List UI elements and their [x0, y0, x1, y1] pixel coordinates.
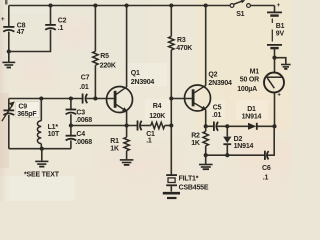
node Q2 collector top rail — [204, 3, 208, 7]
node Q2 emitter junction — [204, 124, 208, 128]
svg-text:R2: R2 — [191, 132, 200, 139]
ground under R2 — [199, 155, 213, 169]
diode D2 — [223, 126, 253, 155]
svg-text:CSB455E: CSB455E — [179, 185, 209, 192]
svg-text:365pF: 365pF — [17, 111, 37, 118]
svg-text:.1: .1 — [146, 137, 152, 144]
wire ground node to meter — [274, 58, 276, 73]
node D1 cathode junction — [272, 124, 276, 128]
node Q2 base junction — [169, 96, 173, 100]
svg-text:.1: .1 — [263, 175, 269, 182]
ground under tank — [35, 149, 48, 167]
wire to right ground — [275, 58, 286, 64]
meter M1 — [237, 68, 284, 98]
svg-text:B1: B1 — [276, 23, 285, 30]
svg-text:FILT1*: FILT1* — [179, 175, 199, 182]
node Q1 emitter junction — [125, 123, 129, 127]
capacitor C7 gap mask — [83, 97, 86, 101]
capacitor C8 — [1, 17, 26, 36]
wire R3 upper lead — [170, 6, 172, 37]
wire R3 node down to R4 node — [170, 99, 172, 126]
capacitor C5 — [206, 104, 228, 131]
wire C8 to ground node — [8, 32, 10, 52]
wire meter to D1 node — [274, 93, 276, 127]
node R2 bottom junction — [204, 153, 208, 157]
wire Q1 collector — [126, 6, 128, 88]
wire R2 leads — [205, 126, 207, 155]
resistor R4 — [149, 103, 171, 129]
svg-text:1K: 1K — [191, 140, 200, 147]
wire bottom right rail — [206, 154, 265, 156]
svg-text:2N3904: 2N3904 — [131, 79, 155, 86]
svg-text:2N3904: 2N3904 — [208, 80, 232, 87]
svg-text:C2: C2 — [58, 17, 67, 24]
svg-text:220K: 220K — [100, 62, 116, 69]
wire Q2 base line — [171, 98, 192, 100]
node C8/C2 junction — [7, 49, 11, 53]
battery B1 — [267, 3, 285, 48]
svg-text:*SEE TEXT: *SEE TEXT — [24, 172, 60, 179]
node battery negative junction — [272, 56, 276, 60]
capacitor C4 — [66, 126, 93, 149]
resistor R5 — [93, 51, 116, 69]
svg-text:.0068: .0068 — [75, 139, 92, 146]
svg-text:100µA: 100µA — [237, 86, 257, 93]
resistor R1 — [110, 137, 129, 152]
ground under C8 — [2, 52, 15, 68]
switch S1 — [230, 0, 250, 18]
svg-text:C9: C9 — [18, 104, 27, 111]
filter FILT1 — [166, 175, 209, 192]
wire L1 bottom lead — [40, 144, 42, 149]
svg-text:C4: C4 — [76, 131, 85, 138]
svg-text:C3: C3 — [76, 109, 85, 116]
transistor Q1 — [107, 70, 155, 112]
svg-text:C7: C7 — [81, 75, 90, 82]
ground right of battery — [281, 65, 291, 69]
capacitor C1 — [138, 121, 156, 145]
svg-text:1N914: 1N914 — [242, 113, 262, 120]
svg-text:D1: D1 — [247, 106, 256, 113]
svg-text:Q1: Q1 — [131, 70, 140, 77]
wire L1 top lead — [40, 99, 42, 121]
wire C9 lower lead — [8, 115, 10, 149]
node tank ground junction — [40, 147, 44, 151]
svg-text:R5: R5 — [100, 53, 109, 60]
node C2 top rail — [48, 3, 52, 7]
svg-text:L1*: L1* — [48, 124, 59, 131]
wire R1 lower lead — [126, 126, 128, 160]
node D2 bottom junction — [225, 153, 229, 157]
capacitor C7 — [79, 75, 89, 104]
svg-text:1K: 1K — [110, 145, 119, 152]
node Q1 collector top rail — [125, 3, 129, 7]
svg-text:10T: 10T — [48, 131, 60, 138]
label box for C9 — [16, 102, 40, 118]
node R5 top rail — [93, 3, 97, 7]
label see text — [24, 172, 60, 179]
wire rail to battery corner — [274, 6, 276, 12]
transistor Q2 — [185, 72, 233, 111]
capacitor C2 — [45, 17, 66, 32]
diode D1 — [242, 106, 275, 130]
wire tank top rail / base line — [9, 98, 114, 100]
wire C2 top lead — [50, 6, 52, 25]
svg-text:.0068: .0068 — [75, 117, 92, 124]
svg-text:1N914: 1N914 — [234, 143, 254, 150]
wire R5 lower lead — [94, 65, 96, 98]
node R5 base junction — [93, 96, 97, 100]
svg-text:C5: C5 — [213, 104, 222, 111]
svg-text:9V: 9V — [276, 31, 285, 38]
wire emitter node line — [71, 125, 137, 127]
wire top rail right of switch — [250, 5, 274, 7]
svg-text:120K: 120K — [149, 113, 165, 120]
svg-text:S1: S1 — [236, 11, 244, 18]
wire C8-C2 bottom link — [9, 30, 51, 52]
wire tank bottom rail — [9, 148, 71, 150]
node C3/C4 junction — [69, 123, 73, 127]
resistor R3 — [169, 37, 193, 53]
wire R3 lower lead — [170, 50, 172, 99]
capacitor C3 — [66, 99, 93, 126]
inductor L1 — [37, 121, 60, 144]
node R3 top rail — [169, 3, 173, 7]
ground under FILT1 — [163, 193, 180, 198]
svg-text:D2: D2 — [234, 136, 243, 143]
svg-text:470K: 470K — [176, 45, 192, 52]
node L1 top junction — [39, 96, 43, 100]
svg-text:Q2: Q2 — [208, 72, 217, 79]
wire top rail — [9, 5, 230, 7]
wire Q2 collector — [205, 6, 207, 86]
variable capacitor C9 — [2, 101, 38, 121]
capacitor C6 — [262, 126, 274, 181]
svg-text:R1: R1 — [110, 138, 119, 145]
wire down to FILT1 — [170, 126, 172, 175]
ground under R1 — [120, 160, 134, 165]
svg-text:R4: R4 — [153, 103, 162, 110]
svg-text:R3: R3 — [177, 37, 186, 44]
svg-text:.01: .01 — [212, 112, 221, 119]
resistor R2 — [191, 131, 208, 147]
node D2 top junction — [225, 124, 229, 128]
svg-text:47: 47 — [17, 29, 25, 36]
node C3 top junction — [69, 96, 73, 100]
wire Q1 emitter — [126, 111, 128, 125]
svg-text:M1: M1 — [250, 68, 260, 75]
svg-text:.01: .01 — [79, 84, 88, 91]
wire battery to ground node — [274, 48, 276, 58]
wire Q2 emitter — [205, 110, 207, 127]
svg-text:.1: .1 — [58, 25, 64, 32]
wire R5 upper lead — [94, 6, 96, 52]
svg-text:50 OR: 50 OR — [240, 77, 259, 84]
node R4 right junction — [169, 123, 173, 127]
wire left drop to C8 — [8, 6, 10, 27]
wire D1 anode lead — [227, 125, 248, 127]
wire C9 branch — [8, 99, 10, 110]
svg-text:C6: C6 — [262, 165, 271, 172]
